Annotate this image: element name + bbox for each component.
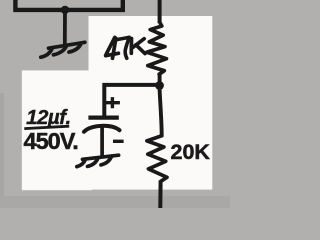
wire: main vertical from top into 47K	[158, 0, 162, 23]
svg-text:20K: 20K	[171, 140, 211, 164]
darker left film edge	[0, 93, 4, 208]
white label patch right (47K/20K area)	[89, 16, 213, 190]
background scan gray	[0, 0, 230, 208]
wire: 20K to bottom edge	[158, 181, 162, 209]
ground chassis symbol (left)	[41, 42, 85, 57]
minus sign	[113, 140, 124, 143]
wire: bus junction down to ground	[63, 8, 67, 46]
wire: top bus with two leads going up	[15, 0, 122, 10]
resistor R 20K	[147, 136, 167, 182]
node junction dot (cap tap)	[155, 81, 164, 90]
wire: 47K to junction	[158, 74, 162, 86]
resistor R 47K	[147, 22, 167, 74]
wire: junction down to 20K	[160, 87, 162, 136]
value label 47K (hand lettered)	[106, 37, 145, 58]
capacitor C 12uf top plate (+)	[88, 115, 118, 119]
white label patch left (capacitor label area)	[22, 70, 92, 190]
capacitor curved bottom plate	[84, 126, 120, 132]
ground chassis symbol (capacitor)	[77, 155, 119, 167]
wire: capacitor to ground	[100, 128, 104, 157]
plus sign	[106, 97, 120, 108]
fraction line	[24, 126, 69, 128]
node junction dot on bus	[61, 6, 69, 14]
darker bottom band	[0, 196, 230, 208]
wire: junction left and down to capacitor	[104, 85, 160, 116]
svg-text:450V.: 450V.	[24, 128, 78, 154]
